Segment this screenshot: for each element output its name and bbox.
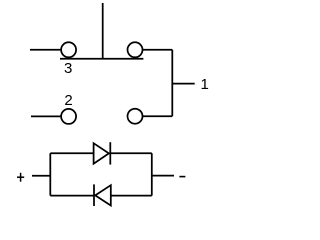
pushbutton plunger — [102, 3, 104, 59]
wire to terminal 3 — [30, 49, 60, 51]
diode D2 cathode bar — [93, 184, 95, 206]
svg-text:3: 3 — [64, 60, 72, 77]
terminal 2 contact circle — [61, 109, 76, 124]
wire to terminal 2 — [31, 115, 60, 117]
diode D2 triangle — [95, 185, 111, 205]
right rail of diode loop — [151, 153, 153, 195]
diode D1 triangle — [94, 143, 109, 164]
wire from plus to left rail — [32, 175, 50, 177]
bottom branch wire left of diode D2 — [50, 195, 94, 197]
top branch wire left of diode D1 — [50, 152, 93, 154]
label minus — [179, 176, 185, 178]
wire from bottom right contact to rail — [143, 115, 173, 117]
label plus — [17, 173, 24, 182]
terminal 3 contact circle — [61, 42, 76, 57]
right rail wire — [171, 50, 173, 116]
moving contact bar — [60, 58, 143, 60]
contact circle bottom right — [128, 109, 143, 124]
minus stub wire — [152, 175, 174, 177]
top branch wire right of diode D1 — [110, 152, 152, 154]
svg-text:1: 1 — [201, 76, 209, 93]
left rail of diode loop — [49, 153, 51, 195]
terminal contact circle top right — [128, 42, 143, 57]
diode D1 cathode bar — [109, 142, 111, 164]
terminal 1 stub wire — [172, 83, 194, 85]
svg-text:2: 2 — [64, 92, 72, 109]
wire from top right contact to rail — [143, 49, 173, 51]
bottom branch wire right of diode D2 — [111, 195, 152, 197]
